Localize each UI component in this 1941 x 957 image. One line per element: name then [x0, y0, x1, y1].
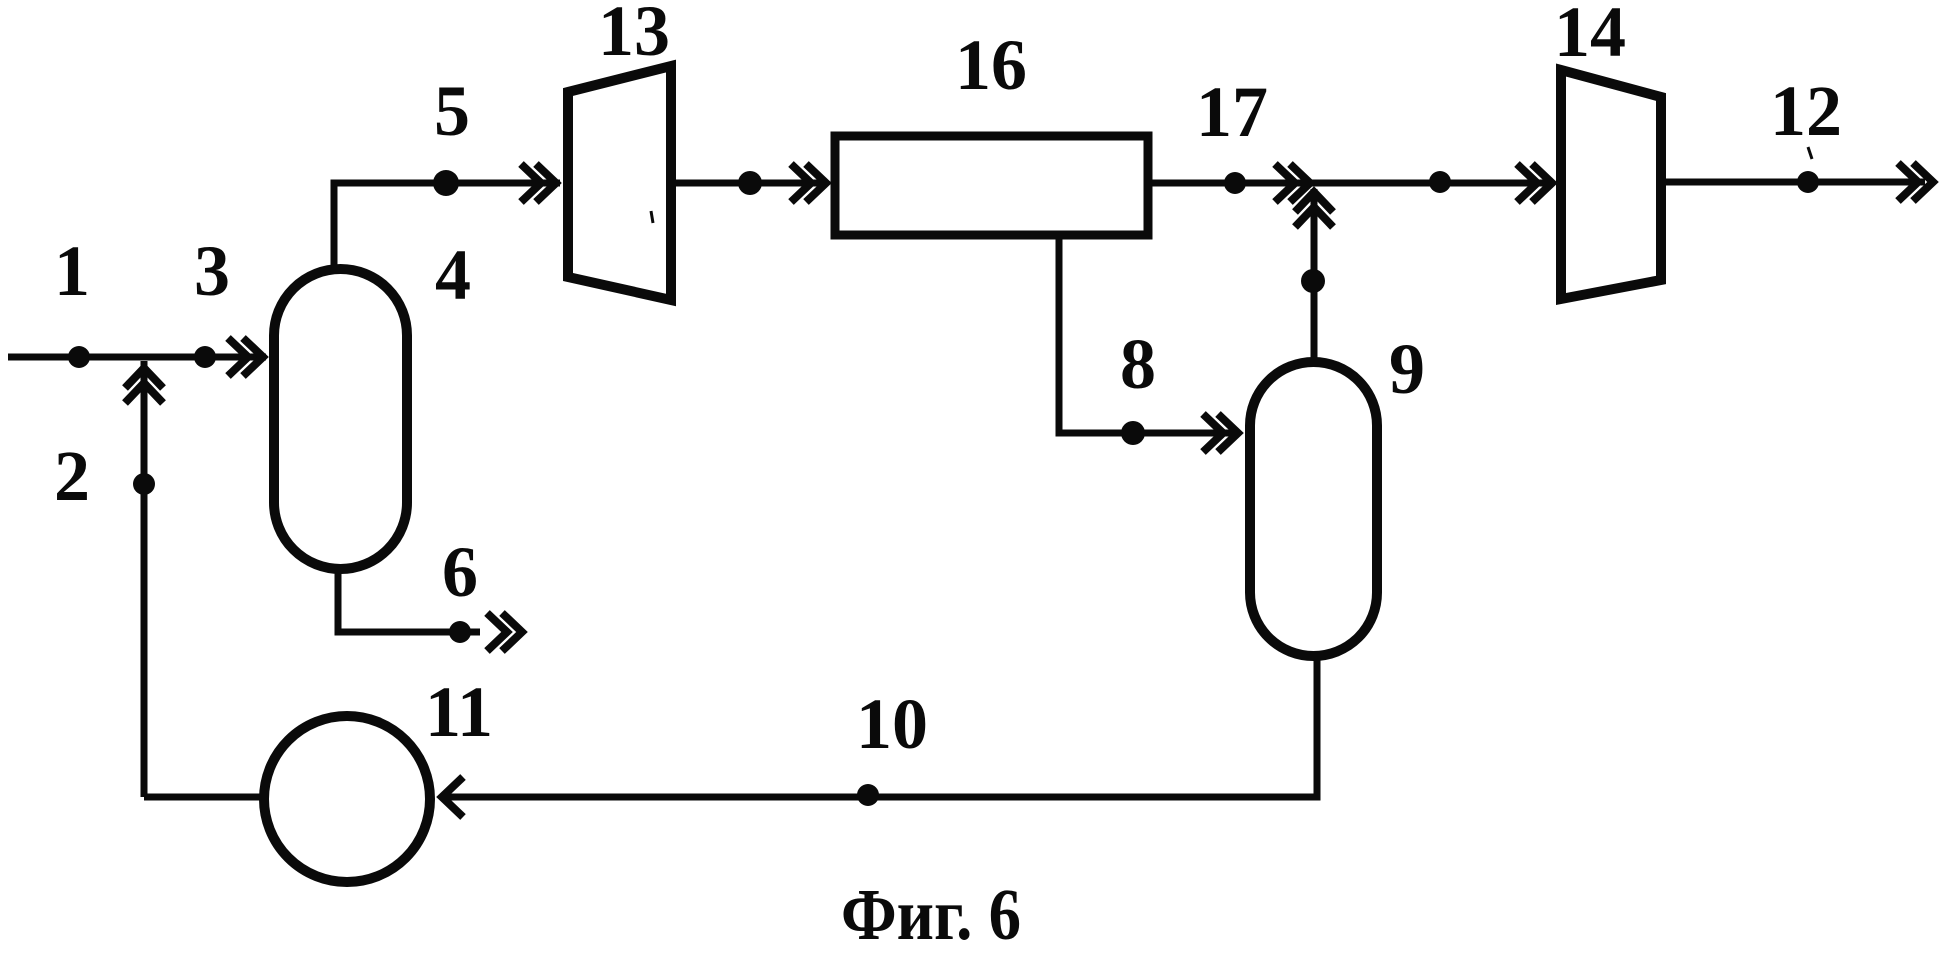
svg-text:13: 13: [598, 0, 670, 71]
wire from pump 11 to stream 2 riser: [144, 794, 264, 801]
svg-text:14: 14: [1554, 0, 1626, 72]
arrow into heat exchanger 16: [791, 164, 826, 202]
node 1 dot: [68, 346, 90, 368]
svg-text:3: 3: [194, 231, 230, 311]
arrow up at junction of stream 2: [125, 368, 163, 403]
node dot before expander 14: [1429, 171, 1451, 193]
svg-text:12: 12: [1770, 71, 1842, 151]
arrow into compressor 13: [521, 164, 556, 202]
svg-text:2: 2: [54, 436, 90, 516]
vessel 4 (absorber capsule): [274, 269, 407, 569]
svg-text:16: 16: [955, 25, 1027, 105]
arrow into vessel 4: [228, 338, 263, 376]
wire from vessel 9 top up to junction: [1311, 189, 1318, 360]
wire recycle stream 2 vertical: [141, 361, 148, 797]
wire from junction to expander 14: [1314, 180, 1553, 187]
node dot on vessel 9 top line: [1301, 269, 1325, 293]
wire inlet stream 1-3 into vessel 4: [8, 354, 266, 361]
node 17 dot: [1224, 172, 1246, 194]
node 2 dot: [133, 473, 155, 495]
node 5 dot: [433, 170, 459, 196]
arrow into vessel 9: [1203, 414, 1238, 452]
svg-text:8: 8: [1120, 324, 1156, 404]
wire stream 8 from exchanger 16 bottom to vessel 9: [1059, 235, 1238, 433]
wire stream 10 from vessel 9 bottom to pump 11: [444, 656, 1317, 797]
svg-text:5: 5: [434, 71, 470, 151]
svg-text:Фиг. 6: Фиг. 6: [841, 874, 1021, 955]
arrow into expander 14: [1517, 164, 1552, 202]
node 8 dot: [1121, 421, 1145, 445]
vessel 9 (separator capsule): [1250, 362, 1377, 656]
svg-text:17: 17: [1196, 72, 1268, 152]
expander 14 (trapezoid): [1561, 70, 1661, 299]
wire stream 6 from vessel 4 bottom: [338, 569, 480, 632]
svg-text:4: 4: [435, 235, 471, 315]
wire outlet stream 12: [1661, 179, 1925, 186]
heat exchanger 16 (rectangle): [835, 136, 1148, 235]
speck inside compressor 13: [651, 211, 653, 223]
svg-text:1: 1: [54, 231, 90, 311]
svg-text:10: 10: [856, 684, 928, 764]
arrow at junction (stream 17): [1275, 164, 1310, 202]
node 12 dot: [1797, 171, 1819, 193]
node 3 dot: [194, 346, 216, 368]
arrow outlet 12: [1898, 163, 1933, 201]
wire stream 5 from vessel 4 top to compressor 13: [334, 183, 560, 267]
wire stream from compressor 13 to heat exchanger 16: [669, 180, 827, 187]
arrow up into junction: [1295, 192, 1333, 227]
svg-text:9: 9: [1389, 329, 1425, 409]
speck above node 12: [1808, 147, 1812, 159]
svg-text:6: 6: [442, 532, 478, 612]
arrow into pump 11: [442, 777, 463, 817]
node 6 dot: [449, 621, 471, 643]
arrow outlet 6: [487, 613, 522, 651]
wire stream 17 from exchanger 16 to mixing junction: [1148, 180, 1314, 187]
compressor 13 (trapezoid): [568, 66, 671, 300]
svg-text:11: 11: [425, 672, 493, 752]
node dot after compressor 13: [738, 171, 762, 195]
node 10 dot: [857, 784, 879, 806]
pump 11 (circle): [264, 716, 430, 882]
